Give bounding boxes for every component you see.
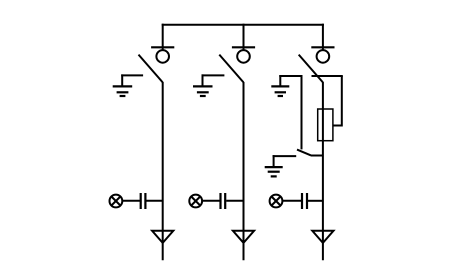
bushing circle way 1 [156,50,169,63]
capacitor way 1 [141,193,146,209]
switch blade way 3 [299,55,323,83]
capacitor way 2 [221,193,226,209]
ground stub way 1 [121,74,123,86]
fuse way 3 [318,109,333,141]
ground stub way 3 lower [273,155,275,167]
wire capacitor to feeder way 3 [308,200,323,202]
switch blade way 2 [219,55,243,83]
wire lamp to capacitor way 3 [282,200,302,202]
capacitor way 3 [302,193,307,209]
wire lamp to capacitor way 1 [122,200,140,202]
striker linkage way 3 [333,76,342,126]
cable termination way 1 [152,231,173,243]
switch blade way 1 [139,55,163,83]
main feeder wire way 3 [322,82,324,260]
earthing switch blade way 3 [297,150,311,156]
cable termination way 2 [233,231,254,243]
indicator lamp way 2 [189,195,202,208]
ground way 1 [113,86,133,96]
earthing switch feed wire way 3 [301,75,303,149]
wire capacitor to feeder way 2 [226,200,243,202]
indicator lamp way 3 [270,195,283,208]
bushing bar way 1 [151,46,174,48]
striker contact wire way 3 [312,75,343,77]
wire blade to feeder way 3 [311,155,323,157]
wire: bus drop way 3 [322,24,324,51]
busbar [162,24,324,26]
bushing circle way 2 [237,50,250,63]
ground stub way 3 upper [279,75,281,86]
main feeder wire way 1 [162,82,164,260]
bushing bar way 3 [311,46,334,48]
cable termination way 3 [312,231,333,243]
wire: bus drop way 2 [243,24,245,51]
indicator lamp way 1 [110,195,123,208]
wire capacitor to feeder way 1 [146,200,162,202]
wire: bus drop way 1 [162,24,164,51]
wire lamp to capacitor way 2 [202,200,220,202]
main feeder wire way 2 [243,82,245,260]
earth contact wire way 2 [202,74,225,76]
earth contact wire way 1 [121,74,143,76]
earth contact wire way 3 lower [273,155,297,157]
ground way 3 lower [265,167,283,176]
ground stub way 2 [202,74,204,86]
ground way 3 upper [271,86,289,96]
bushing bar way 2 [232,46,255,48]
bushing circle way 3 [317,50,330,63]
earth contact wire way 3 [279,75,302,77]
ground way 2 [193,86,213,96]
